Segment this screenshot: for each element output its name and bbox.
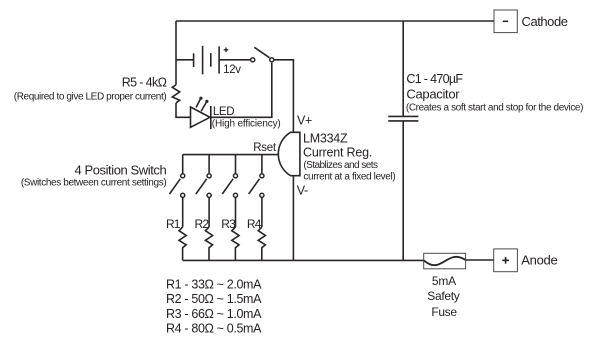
LED cathode bar [210, 106, 212, 129]
svg-text:(High efficiency): (High efficiency) [212, 118, 281, 129]
svg-text:Cathode: Cathode [522, 14, 568, 29]
resistor R2 [205, 227, 212, 260]
battery B1 plate short 1 [193, 53, 195, 67]
resistor R3 [232, 227, 239, 260]
resistor R1 [179, 227, 186, 260]
wire: power switch to V+ of U1 [274, 60, 293, 133]
svg-text:R2 - 50Ω ~ 1.5mA: R2 - 50Ω ~ 1.5mA [166, 292, 262, 306]
fuse F1 element wave [424, 257, 466, 265]
power switch contact right [270, 58, 274, 62]
switch S2 contacts [207, 174, 211, 178]
switch S2 arm [196, 179, 207, 194]
LED emission arrow 2 [201, 103, 206, 112]
svg-text:LED: LED [213, 106, 234, 118]
svg-text:R3: R3 [221, 217, 236, 231]
svg-text:R5 - 4kΩ: R5 - 4kΩ [122, 76, 167, 90]
svg-text:5mA: 5mA [432, 274, 456, 288]
svg-text:(Required to give LED proper c: (Required to give LED proper current) [14, 92, 167, 103]
svg-text:4 Position Switch: 4 Position Switch [74, 163, 166, 178]
resistor R5 [172, 85, 179, 103]
wire: S1 to R1 [182, 198, 184, 227]
wire: stub S1 [182, 155, 184, 174]
battery B1 plate short 2 [210, 53, 212, 67]
LED emission arrowhead 1 [199, 97, 202, 100]
wire: top bus from left rail to cathode terminal [176, 20, 494, 22]
switch S3 arm [222, 179, 233, 194]
wire: battery to power switch [219, 59, 250, 61]
svg-text:(Switches between current sett: (Switches between current settings) [21, 178, 166, 189]
capacitor C1 plate bottom [388, 120, 418, 122]
wire: left rail to battery [176, 59, 194, 61]
battery B1 plate tall 2 [218, 46, 220, 73]
capacitor C1 plate top [388, 115, 418, 117]
wire: stub S4 [261, 155, 263, 174]
svg-text:Safety: Safety [427, 289, 460, 303]
svg-text:R2: R2 [195, 217, 210, 231]
resistor R4 [258, 227, 265, 260]
svg-text:Fuse: Fuse [431, 305, 457, 319]
switch S3 contacts [233, 174, 237, 178]
svg-text:R4: R4 [247, 217, 262, 231]
wire: left rail down to R5 [175, 21, 177, 85]
battery B1 plate tall 1 [202, 46, 204, 75]
wire: stub S2 [208, 155, 210, 174]
op-amp U1 LM334Z body [278, 132, 300, 175]
anode + mark [502, 257, 509, 264]
LED emission arrow 1 [196, 99, 200, 107]
wire: Rset bus [183, 154, 278, 156]
power switch contact left [251, 58, 255, 62]
svg-text:Current Reg.: Current Reg. [303, 145, 372, 159]
svg-text:(Stablizes and sets: (Stablizes and sets [303, 160, 378, 171]
svg-text:Anode: Anode [521, 252, 557, 267]
LED D1 triangle [191, 107, 211, 127]
switch S1 arm [170, 179, 181, 194]
LED emission arrowhead 2 [205, 100, 208, 103]
switch S1 contacts [181, 174, 185, 178]
svg-text:R1 - 33Ω ~ 2.0mA: R1 - 33Ω ~ 2.0mA [166, 277, 262, 291]
wire: LED cathode up to power switch [211, 63, 272, 118]
svg-text:R4 - 80Ω ~ 0.5mA: R4 - 80Ω ~ 0.5mA [166, 322, 262, 336]
wire: stub S3 [235, 155, 237, 174]
wire: V- of U1 to bottom bus [292, 176, 294, 261]
svg-text:V-: V- [297, 184, 308, 198]
svg-text:R1: R1 [166, 217, 181, 231]
power switch arm [254, 47, 269, 57]
svg-text:Capacitor: Capacitor [406, 86, 460, 101]
wire: S3 to R3 [235, 198, 237, 227]
wire: capacitor C1 to bottom bus [402, 121, 404, 261]
wire: S4 to R4 [261, 198, 263, 227]
svg-text:C1 - 470µF: C1 - 470µF [406, 72, 463, 86]
svg-text:12v: 12v [223, 64, 241, 76]
svg-text:current at a fixed level): current at a fixed level) [303, 171, 395, 182]
svg-text:V+: V+ [297, 113, 312, 127]
terminal box anode [494, 249, 518, 272]
svg-text:LM334Z: LM334Z [303, 131, 348, 145]
wire: top bus to capacitor C1 [402, 21, 404, 116]
switch S4 contacts [260, 174, 264, 178]
svg-text:(Creates a soft start and stop: (Creates a soft start and stop for the d… [406, 103, 583, 114]
terminal box cathode [494, 10, 517, 33]
wire: fuse to anode terminal [466, 259, 494, 261]
cathode - mark [503, 20, 508, 22]
battery + mark [224, 48, 229, 53]
wire: S2 to R2 [208, 198, 210, 227]
fuse F1 body [424, 253, 466, 268]
switch S4 arm [249, 179, 260, 194]
svg-text:Rset: Rset [253, 142, 277, 154]
wire: R5 to LED anode [176, 103, 191, 117]
svg-text:R3 - 66Ω ~ 1.0mA: R3 - 66Ω ~ 1.0mA [166, 307, 262, 321]
wire: bottom bus [183, 259, 424, 261]
